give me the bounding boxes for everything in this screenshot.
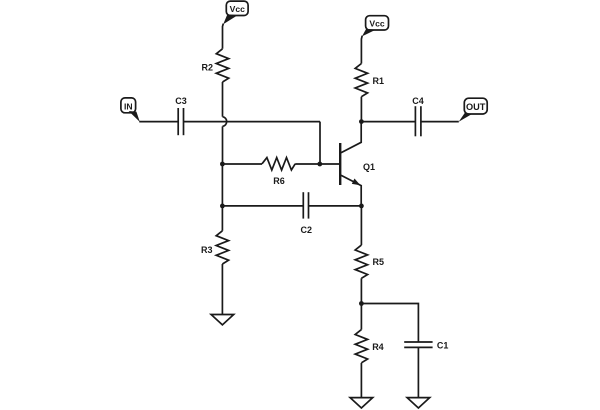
svg-text:IN: IN [124,101,133,111]
wire hop bottom to node A [222,126,224,164]
net flag Vcc (left supply) [223,1,248,24]
svg-text:R2: R2 [201,62,213,72]
node B junction dot (base node) [317,162,322,167]
wire base jog vertical [319,122,321,164]
wire collector node to C4 [361,121,415,123]
ground (C1) [407,398,430,408]
collector node junction dot [359,119,364,124]
svg-text:C2: C2 [301,225,313,235]
ground (R4) [350,398,373,408]
wire node B to Q1 base [320,163,340,165]
svg-text:R4: R4 [372,342,384,352]
net flag IN [121,98,140,122]
wire C3 to base jog (horizontal rail, passes under hop) [184,121,321,123]
wire hop (vertical jumps over horizontal rail) [223,117,227,127]
resistor R3 [201,231,229,264]
wire node C to C2 left plate [222,205,303,207]
wire emitter node to R5 [360,206,362,245]
wire node A to R6 left [222,163,262,165]
wire C4 to OUT flag [421,121,459,123]
wire node C to R3 [221,206,223,231]
wire R1 bottom to collector node [360,97,362,122]
resistor R5 [355,245,384,278]
wire C1 to ground [417,347,419,397]
resistor R2 [201,49,228,82]
svg-text:OUT: OUT [466,102,486,112]
node D junction dot (R5/R4/C1) [359,301,364,306]
capacitor C2 [301,192,313,235]
ground (R3) [211,315,234,325]
svg-text:R6: R6 [273,176,285,186]
wire node D to C1 branch [361,304,418,342]
net flag OUT [459,98,487,122]
svg-text:C1: C1 [437,340,449,350]
wire R2 bottom to hop [222,82,224,117]
svg-text:Vcc: Vcc [230,4,246,14]
wire R3 to ground [221,264,223,315]
node A junction dot (R2/R6/R3 column) [220,162,225,167]
wire Vcc flag to R1 top [360,36,363,64]
wire R6 right to node B [295,163,320,165]
resistor R4 [355,330,384,363]
svg-text:Vcc: Vcc [369,19,385,29]
node C junction dot (C2 left / R3 top) [220,204,225,209]
transistor Q1 (NPN) [340,122,375,206]
wire R5 to node D [360,278,362,303]
capacitor C4 [412,96,424,136]
capacitor C3 [175,96,187,135]
svg-text:C3: C3 [175,96,187,106]
resistor R1 [355,64,384,97]
wire IN to C3 [139,121,178,123]
net flag Vcc (right supply) [362,16,389,37]
svg-text:C4: C4 [412,96,424,106]
svg-text:R1: R1 [373,76,385,86]
svg-text:Q1: Q1 [363,162,375,172]
wire node D to R4 [360,304,362,330]
resistor R6 [262,158,295,186]
svg-text:R3: R3 [201,245,213,255]
wire node A down to C2 left node [221,164,223,206]
wire Vcc flag to R2 top [222,24,225,49]
wire C2 right plate to emitter node [309,205,362,207]
emitter node junction dot (C2 right / R5 top) [359,204,364,209]
capacitor C1 [404,340,448,350]
wire R4 to ground [360,363,362,398]
svg-text:R5: R5 [373,257,385,267]
